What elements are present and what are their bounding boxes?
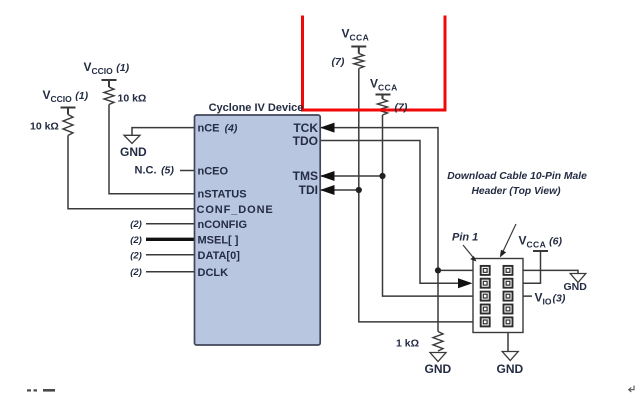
svg-text:nCEO: nCEO [198,166,229,178]
svg-text:10 kΩ: 10 kΩ [118,93,147,105]
svg-text:GND: GND [425,362,452,376]
svg-text:nCE (4): nCE (4) [198,123,238,135]
svg-text:Download Cable 10-Pin Male: Download Cable 10-Pin Male [447,171,587,182]
svg-text:Pin 1: Pin 1 [452,232,478,244]
svg-text:(7): (7) [332,56,345,68]
svg-text:TCK: TCK [293,121,318,135]
svg-text:VCCA: VCCA [370,77,398,93]
svg-text:GND: GND [120,145,147,159]
svg-text:TMS: TMS [293,169,318,183]
svg-text:nCONFIG: nCONFIG [198,219,248,231]
svg-text:N.C. (5): N.C. (5) [135,165,175,177]
svg-text:VCCIO(1): VCCIO(1) [84,60,130,76]
svg-text:VCCIO(1): VCCIO(1) [43,88,89,104]
svg-text:GND: GND [497,362,524,376]
svg-text:VCCA(6): VCCA(6) [519,234,563,250]
svg-text:(2): (2) [130,219,142,230]
svg-text:VIO(3): VIO(3) [535,291,566,307]
svg-text:Cyclone IV Device: Cyclone IV Device [209,102,304,114]
svg-text:TDI: TDI [299,183,318,197]
svg-text:CONF_DONE: CONF_DONE [197,204,274,216]
svg-text:VCCA: VCCA [342,27,370,43]
svg-text:DATA[0]: DATA[0] [198,250,241,262]
svg-text:DCLK: DCLK [198,267,229,279]
svg-text:(7): (7) [395,102,408,114]
svg-text:(2): (2) [130,235,142,246]
svg-text:TDO: TDO [293,134,318,148]
svg-text:1 kΩ: 1 kΩ [396,338,419,350]
svg-text:10 kΩ: 10 kΩ [30,121,59,133]
svg-text:GND: GND [564,281,588,293]
svg-text:MSEL[ ]: MSEL[ ] [198,235,239,247]
svg-text:nSTATUS: nSTATUS [198,189,247,201]
svg-text:(2): (2) [130,250,142,261]
svg-text:(2): (2) [130,267,142,278]
svg-text:Header (Top View): Header (Top View) [471,186,561,197]
